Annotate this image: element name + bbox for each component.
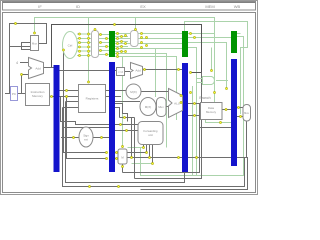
node green stub 1	[87, 81, 89, 83]
wire: green bundle EX long lines	[115, 34, 182, 148]
wire: forwarding drops	[143, 145, 145, 149]
wire: dark top y24	[52, 25, 202, 73]
sign extend	[79, 127, 93, 147]
wire: DM out to MEMWB	[222, 109, 231, 111]
wire: green lines MEM	[188, 34, 231, 176]
node dark wire junction	[113, 23, 115, 25]
node y117	[123, 116, 125, 118]
wire: mux out to PC	[10, 46, 31, 48]
header bar	[3, 2, 256, 11]
ALU	[169, 89, 183, 118]
wire: bottom y186	[63, 108, 245, 187]
wire: EXMEM to DM address	[188, 103, 201, 105]
wire: signext output	[93, 137, 109, 139]
wire: IDEX out rows EX	[115, 90, 126, 92]
svg-text:Mux: Mux	[32, 42, 38, 46]
svg-text:4: 4	[16, 61, 18, 65]
node capsule1 top	[94, 28, 96, 30]
wire: stair step rs rt down	[61, 97, 110, 125]
wire: forwarding inputs	[115, 124, 138, 126]
wire: muxB to ALU	[156, 106, 168, 108]
mux PCSrc	[31, 36, 39, 51]
mux forward A (ellipse)	[126, 84, 141, 99]
node alu out	[180, 94, 182, 96]
wire: IFID to registers rt	[59, 96, 78, 98]
memory Data Memory	[201, 103, 223, 120]
svg-text:IF: IF	[38, 4, 42, 9]
pipeline register EX/MEM control (green bar)	[182, 31, 188, 57]
wire: adder out	[44, 67, 54, 69]
wire: IFID to registers rs	[59, 90, 78, 92]
node branch add out	[143, 68, 145, 70]
wire: green stub x88	[88, 18, 90, 83]
wire: branch target green line top	[35, 18, 215, 104]
mux MemtoReg (capsule)	[243, 105, 251, 122]
svg-text:M(X): M(X)	[130, 90, 137, 94]
node exmem green right	[189, 32, 191, 34]
control unit Ctrl (ellipse)	[63, 32, 78, 59]
node forwarding drops	[142, 146, 144, 148]
wire: bottom y172	[123, 139, 200, 173]
wire: capsule1 to green bar	[98, 35, 109, 55]
node mux5 pins	[105, 151, 107, 153]
shift left 2	[117, 68, 125, 76]
pipeline register MEM/WB (blue bar)	[231, 59, 237, 166]
wire: EXMEM to DM writedata	[188, 115, 201, 117]
adder branch Add	[131, 63, 143, 79]
wire: PC to instruction memory	[5, 93, 25, 95]
wire: green y163	[132, 163, 153, 165]
svg-text:ID: ID	[76, 4, 80, 9]
adder PC+4	[29, 58, 44, 79]
svg-text:Memory: Memory	[32, 94, 43, 98]
pipeline register MEM/WB control (green bar)	[231, 31, 237, 53]
wire: mux5 inputs right of IDEX	[115, 152, 118, 154]
wire: MEMWB to WB mux	[237, 107, 243, 109]
node ctrl fan right col	[87, 33, 89, 35]
node idex green right col	[116, 32, 118, 34]
node forwarding inputs	[119, 123, 121, 125]
node ctrl fan left col	[78, 33, 80, 35]
pipeline register ID/EX (blue bar)	[109, 62, 115, 172]
node y157 line	[177, 156, 179, 158]
mux forward B (ellipse)	[140, 98, 156, 116]
pipeline register IF/ID (blue bar)	[54, 65, 60, 172]
wire: x199 vertical	[199, 104, 201, 173]
wire: bottom y189	[141, 158, 248, 190]
svg-text:WB: WB	[234, 4, 241, 9]
svg-text:Ctrl: Ctrl	[68, 44, 73, 48]
node ctrl in	[62, 49, 64, 51]
wire: registers outputs to IDEX	[106, 90, 109, 92]
node memread	[225, 87, 227, 89]
wire: MEM passthrough	[200, 127, 232, 129]
svg-text:Memory: Memory	[206, 110, 217, 114]
svg-text:ext: ext	[84, 138, 88, 142]
wire: 4 into adder	[20, 62, 28, 64]
svg-text:M(X): M(X)	[145, 105, 152, 109]
node signext in/out	[72, 136, 74, 138]
pipeline register ID/EX control (green bar)	[109, 31, 115, 57]
forwarding unit	[138, 122, 163, 145]
node regs in	[65, 89, 67, 91]
capsule WB/M/EX split	[131, 31, 139, 47]
svg-text:Branch: Branch	[199, 96, 210, 100]
wire: muxA out to ALU	[141, 91, 168, 93]
mux control stall (capsule)	[92, 31, 99, 58]
node capsule1 right col	[99, 33, 101, 35]
node pc feedback	[14, 22, 16, 24]
register file Registers	[79, 85, 106, 113]
svg-text:<<2: <<2	[118, 70, 124, 74]
wire: green stub x136	[135, 18, 137, 30]
node instmem out	[50, 95, 52, 97]
wire: rd stair	[115, 101, 140, 103]
svg-text:EX: EX	[140, 4, 146, 9]
mux forward lower (box)	[118, 149, 127, 164]
memory Instruction Memory	[26, 84, 50, 106]
wire: writeback into registers	[66, 101, 79, 103]
node green stub 2	[134, 28, 136, 30]
wire: bottom y178	[135, 73, 202, 179]
node and gate top	[210, 69, 212, 71]
svg-text:Add: Add	[135, 69, 141, 73]
wire: pc feedback top y23	[10, 24, 47, 94]
wire: signext input	[61, 137, 79, 139]
svg-text:unit: unit	[148, 133, 153, 137]
wire: mux5 out long y157	[127, 157, 244, 159]
wire: add out to EXMEM	[142, 69, 182, 71]
svg-text:Add: Add	[35, 67, 41, 71]
node idex green left col	[105, 37, 107, 39]
wire: green ALUop vertical	[122, 57, 124, 148]
wire: green line y21 right	[185, 22, 248, 115]
wire: bottom y182	[66, 102, 185, 183]
node col x125	[124, 34, 126, 36]
wire: WB mux down	[246, 121, 248, 158]
svg-text:Mux: Mux	[158, 105, 164, 109]
wire: green lines WB	[141, 34, 244, 176]
wire: instmem to IFID	[50, 96, 54, 98]
wire: instr fields down bundle	[64, 46, 107, 153]
node x129 end	[130, 156, 132, 158]
wire: ctrl fan stubs	[77, 34, 91, 56]
svg-text:Registers: Registers	[86, 97, 99, 101]
svg-text:Mux: Mux	[244, 112, 249, 115]
node dark end	[189, 71, 191, 73]
and gate branch	[197, 77, 214, 85]
wire: pc up to adder	[22, 75, 29, 94]
register PC	[11, 87, 18, 101]
node dm out	[225, 108, 227, 110]
svg-text:MEM: MEM	[205, 4, 214, 9]
mux ALUSrc (capsule)	[157, 98, 167, 117]
pipeline register EX/MEM (blue bar)	[182, 63, 188, 172]
outer image border	[1, 1, 258, 195]
wire: PCsrc mux loop	[22, 43, 31, 50]
wire: IFID pc+4 to ex	[59, 70, 116, 72]
node capsule2 left col	[120, 35, 122, 37]
node and gate bottom	[213, 91, 215, 93]
node mux top	[33, 32, 35, 34]
wire: mux5 below	[122, 164, 124, 173]
wire: green forwarding y147	[128, 147, 144, 149]
wire: shift to add	[124, 71, 130, 73]
node pc adder branch	[20, 73, 22, 75]
main frame	[3, 13, 256, 193]
node capsule2 right col	[140, 32, 142, 34]
wire: rt pipe y117	[120, 117, 135, 119]
svg-text:ALU: ALU	[174, 102, 180, 106]
node mux5 bottom	[121, 165, 123, 167]
node bottom y186	[88, 185, 90, 187]
